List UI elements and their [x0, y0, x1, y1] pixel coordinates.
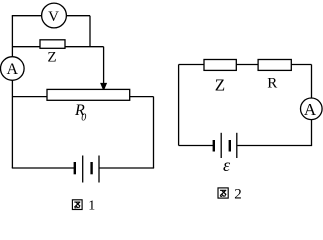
wire: left rail fig1 — [11, 16, 13, 168]
ammeter A fig1 — [1, 57, 25, 81]
svg-text:Z: Z — [215, 75, 225, 94]
svg-text:V: V — [48, 9, 59, 25]
wire: Z row wire fig1 — [12, 46, 103, 48]
caption 图1: hanzi TU — [72, 200, 82, 210]
voltmeter V — [42, 3, 67, 28]
wire: drop from top wire to Z output — [89, 16, 91, 47]
battery fig2: short plate 1 — [213, 140, 215, 152]
slider arrow of rheostat — [100, 83, 107, 91]
svg-text:1: 1 — [88, 199, 95, 214]
ammeter A fig2 — [301, 98, 323, 120]
svg-text:A: A — [7, 61, 19, 78]
wire: drop to rheostat slider — [103, 47, 105, 84]
rheostat R0 — [47, 89, 130, 100]
wire: bottom wire right fig1 — [99, 167, 154, 169]
battery fig1: short plate 1 — [74, 162, 76, 174]
resistor R fig2 — [258, 60, 291, 71]
battery fig2: short plate 2 — [229, 140, 231, 152]
wire: right rail fig2 — [311, 65, 313, 146]
battery fig2: long plate 1 — [220, 133, 222, 158]
battery fig1: long plate 2 — [98, 156, 100, 183]
wire: bottom wire left fig1 — [12, 167, 74, 169]
svg-text:2: 2 — [234, 186, 242, 202]
battery fig2: long plate 2 — [236, 133, 238, 158]
wire: bottom wire right fig2 — [237, 145, 312, 147]
resistor Z fig1 — [40, 40, 65, 49]
wire: rheostat right wire — [130, 96, 154, 98]
wire: top wire fig2 — [179, 64, 312, 66]
battery fig1: long plate 1 — [82, 156, 84, 183]
wire: rheostat left wire — [12, 96, 47, 98]
svg-text:A: A — [304, 100, 317, 119]
wire: right rail fig1 — [153, 97, 155, 168]
caption 图2: hanzi TU — [218, 188, 228, 198]
resistor Z fig2 — [204, 60, 236, 71]
battery fig1: short plate 2 — [90, 162, 92, 174]
svg-text:Z: Z — [47, 50, 56, 66]
wire: left rail fig2 — [178, 65, 180, 146]
wire: top wire fig1 — [12, 15, 90, 17]
svg-text:R: R — [267, 76, 277, 92]
svg-text:0: 0 — [81, 112, 86, 123]
svg-text:ε: ε — [223, 155, 231, 175]
wire: bottom wire left fig2 — [179, 145, 213, 147]
